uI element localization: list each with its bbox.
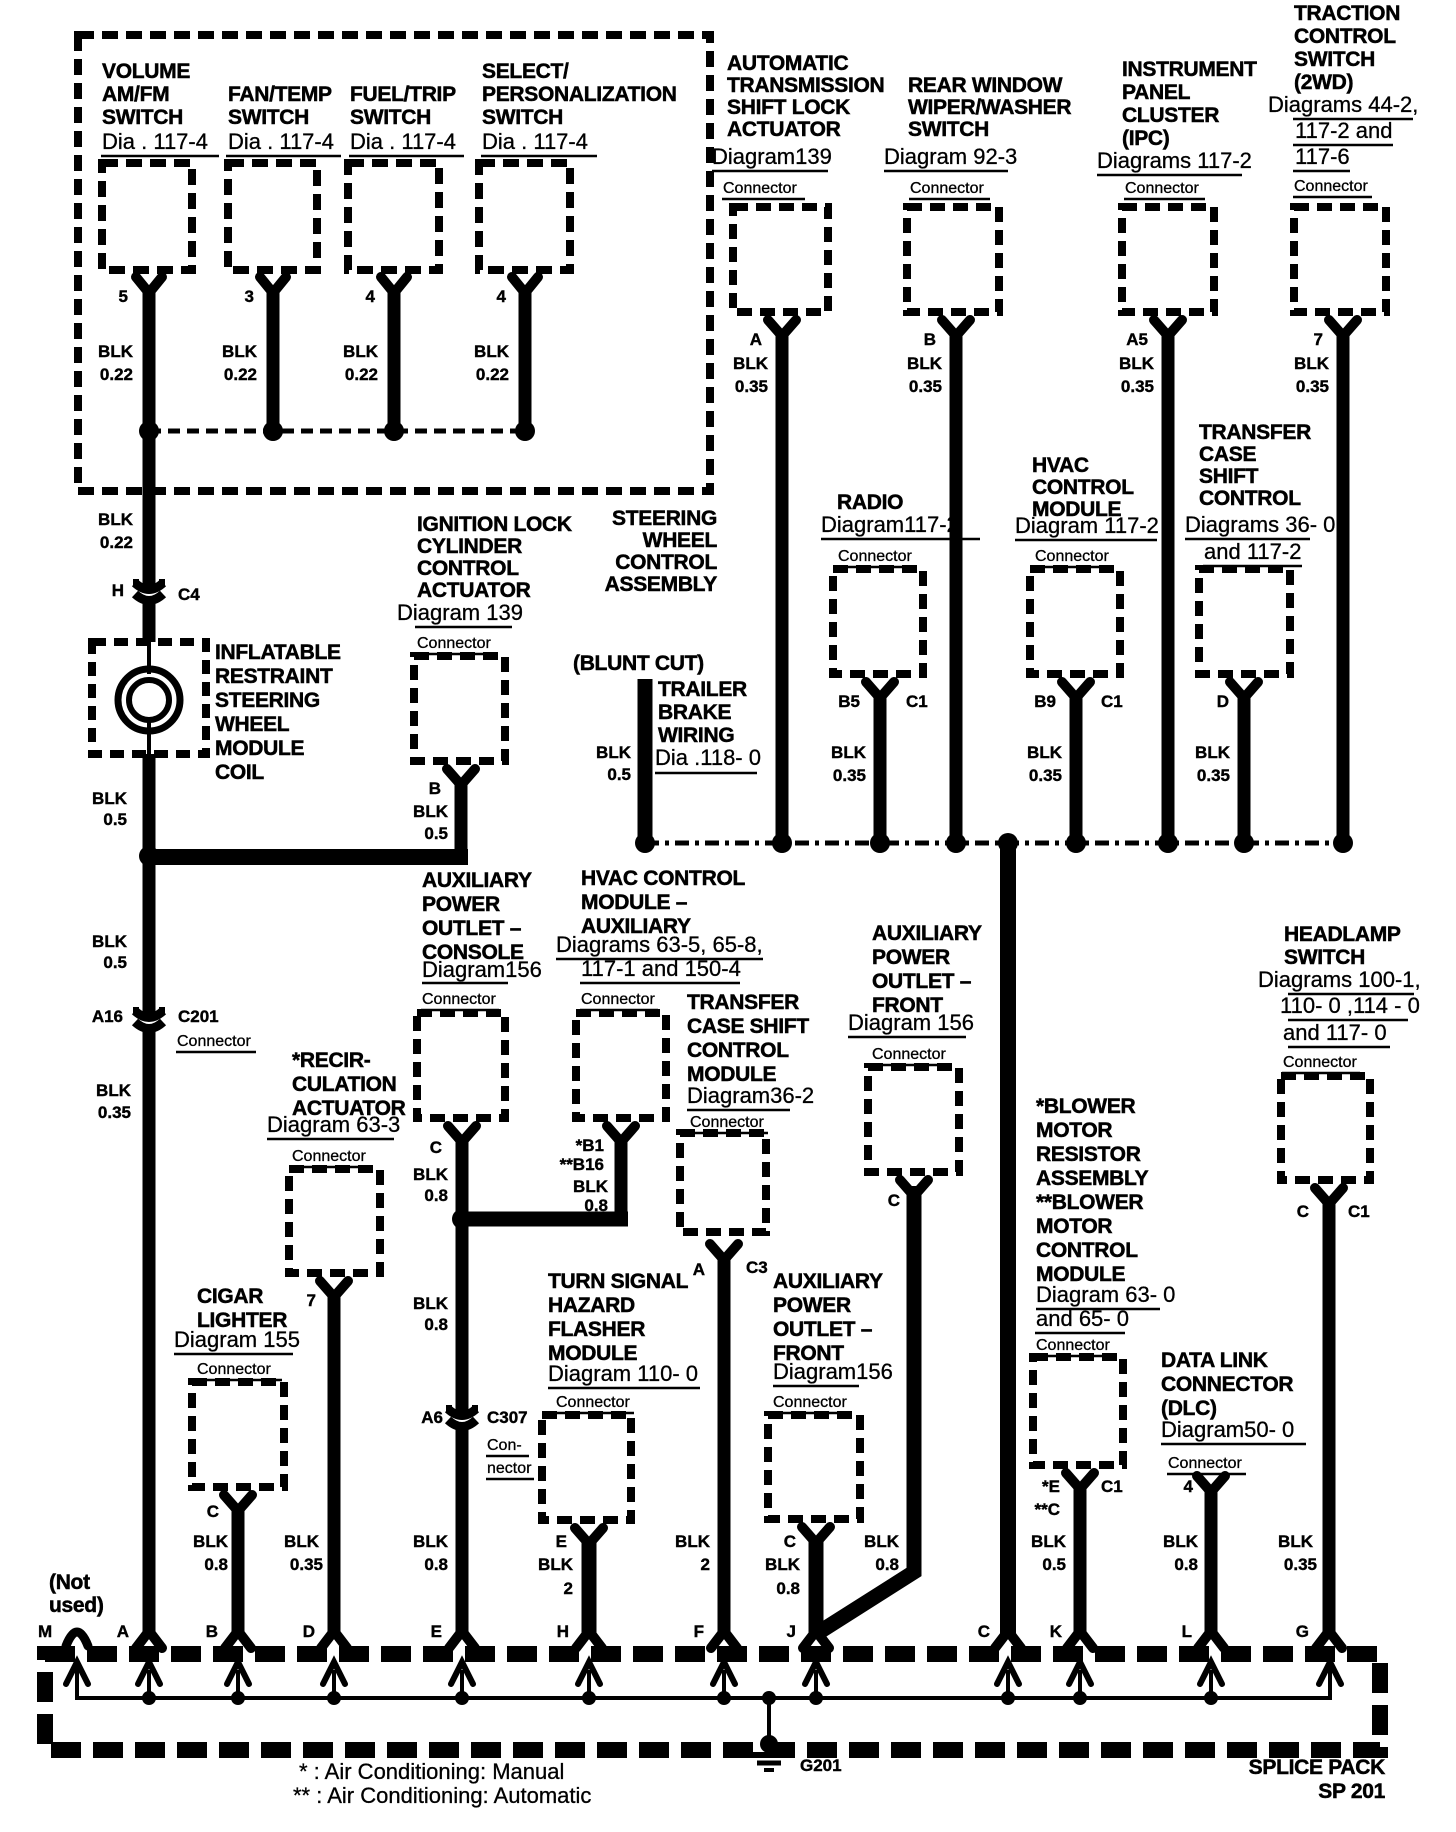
svg-text:A5: A5 [1126, 330, 1148, 349]
svg-text:Connector: Connector [773, 1394, 847, 1411]
svg-text:BLK: BLK [96, 1081, 132, 1100]
svg-text:CONTROL: CONTROL [1199, 487, 1301, 510]
svg-text:Diagram156: Diagram156 [773, 1359, 893, 1384]
svg-text:C: C [888, 1191, 900, 1210]
svg-text:CULATION: CULATION [292, 1073, 397, 1096]
svg-text:D: D [1217, 692, 1229, 711]
svg-text:BLK: BLK [1294, 354, 1330, 373]
svg-text:WHEEL: WHEEL [215, 713, 290, 736]
svg-text:** : Air Conditioning: Automat: ** : Air Conditioning: Automatic [293, 1783, 591, 1808]
svg-text:FAN/TEMP: FAN/TEMP [228, 83, 332, 106]
svg-text:*RECIR-: *RECIR- [292, 1049, 371, 1072]
svg-text:C: C [430, 1138, 442, 1157]
svg-text:CASE SHIFT: CASE SHIFT [687, 1015, 809, 1038]
svg-text:nector: nector [487, 1460, 532, 1477]
svg-text:FUEL/TRIP: FUEL/TRIP [350, 83, 456, 106]
svg-text:SELECT/: SELECT/ [482, 60, 569, 83]
svg-text:CONTROL: CONTROL [1294, 25, 1396, 48]
svg-text:Connector: Connector [197, 1361, 271, 1378]
svg-text:0.22: 0.22 [224, 365, 257, 384]
svg-text:Diagram139: Diagram139 [712, 144, 832, 169]
svg-text:WIPER/WASHER: WIPER/WASHER [908, 96, 1071, 119]
svg-text:G201: G201 [800, 1756, 842, 1775]
svg-text:* : Air Conditioning: Manual: * : Air Conditioning: Manual [299, 1759, 564, 1784]
svg-text:Diagram50- 0: Diagram50- 0 [1161, 1417, 1294, 1442]
svg-text:STEERING: STEERING [612, 507, 717, 530]
svg-text:G: G [1296, 1622, 1309, 1641]
svg-text:CONTROL: CONTROL [687, 1039, 789, 1062]
svg-text:4: 4 [366, 287, 376, 306]
svg-text:Dia .118- 0: Dia .118- 0 [655, 745, 761, 770]
svg-text:RESISTOR: RESISTOR [1036, 1143, 1141, 1166]
svg-text:SPLICE PACK: SPLICE PACK [1249, 1756, 1385, 1779]
svg-text:BLK: BLK [596, 743, 632, 762]
svg-text:ACTUATOR: ACTUATOR [417, 579, 531, 602]
svg-text:INSTRUMENT: INSTRUMENT [1122, 58, 1257, 81]
svg-text:Diagram156: Diagram156 [422, 957, 542, 982]
svg-text:Connector: Connector [690, 1114, 764, 1131]
svg-text:CONTROL: CONTROL [615, 551, 717, 574]
svg-text:(Not: (Not [49, 1571, 90, 1594]
svg-text:L: L [1182, 1622, 1192, 1641]
svg-text:BLK: BLK [1278, 1532, 1314, 1551]
svg-text:0.8: 0.8 [424, 1315, 448, 1334]
svg-text:BLK: BLK [1195, 743, 1231, 762]
svg-text:H: H [557, 1622, 569, 1641]
svg-text:POWER: POWER [422, 893, 500, 916]
svg-text:A: A [750, 330, 762, 349]
svg-text:SWITCH: SWITCH [102, 106, 183, 129]
svg-text:B: B [206, 1622, 218, 1641]
svg-text:*BLOWER: *BLOWER [1036, 1095, 1136, 1118]
svg-text:C: C [784, 1532, 796, 1551]
svg-text:TRACTION: TRACTION [1294, 2, 1400, 25]
svg-text:BLK: BLK [474, 342, 510, 361]
svg-text:BLK: BLK [573, 1177, 609, 1196]
svg-text:Diagram 156: Diagram 156 [848, 1010, 974, 1035]
svg-text:TRANSFER: TRANSFER [1199, 421, 1311, 444]
svg-text:RESTRAINT: RESTRAINT [215, 665, 333, 688]
svg-text:Diagram 63- 0: Diagram 63- 0 [1036, 1282, 1175, 1307]
svg-text:C: C [207, 1502, 219, 1521]
svg-text:117-1 and 150-4: 117-1 and 150-4 [581, 956, 741, 981]
svg-text:E: E [431, 1622, 442, 1641]
svg-text:M: M [38, 1622, 52, 1641]
svg-text:4: 4 [497, 287, 507, 306]
svg-text:Connector: Connector [556, 1394, 630, 1411]
svg-text:C1: C1 [1348, 1202, 1370, 1221]
svg-text:ASSEMBLY: ASSEMBLY [1036, 1167, 1149, 1190]
svg-text:**C: **C [1034, 1500, 1060, 1519]
svg-text:0.35: 0.35 [290, 1555, 323, 1574]
svg-text:OUTLET –: OUTLET – [872, 970, 972, 993]
svg-text:C1: C1 [1101, 692, 1123, 711]
svg-text:B: B [429, 779, 441, 798]
svg-text:D: D [303, 1622, 315, 1641]
svg-text:Diagrams 44-2,: Diagrams 44-2, [1268, 92, 1418, 117]
svg-text:0.22: 0.22 [100, 533, 133, 552]
svg-text:0.35: 0.35 [1284, 1555, 1317, 1574]
svg-text:0.5: 0.5 [607, 765, 631, 784]
svg-text:Connector: Connector [1168, 1455, 1242, 1472]
svg-text:Diagram 117-2: Diagram 117-2 [1015, 513, 1159, 538]
svg-text:BLK: BLK [675, 1532, 711, 1551]
svg-text:Connector: Connector [910, 180, 984, 197]
svg-text:110- 0 ,114 - 0: 110- 0 ,114 - 0 [1280, 993, 1420, 1018]
svg-text:Connector: Connector [1036, 1337, 1110, 1354]
svg-text:OUTLET –: OUTLET – [773, 1318, 873, 1341]
svg-text:CONTROL: CONTROL [417, 557, 519, 580]
svg-text:Diagram 110- 0: Diagram 110- 0 [548, 1361, 698, 1386]
svg-text:Connector: Connector [422, 991, 496, 1008]
svg-text:0.35: 0.35 [1296, 377, 1329, 396]
svg-text:AM/FM: AM/FM [102, 83, 169, 106]
svg-text:C1: C1 [906, 692, 928, 711]
svg-text:AUXILIARY: AUXILIARY [872, 922, 982, 945]
svg-text:0.22: 0.22 [345, 365, 378, 384]
svg-text:*B1: *B1 [576, 1136, 604, 1155]
svg-text:2: 2 [701, 1555, 710, 1574]
svg-text:BLK: BLK [538, 1555, 574, 1574]
svg-text:Connector: Connector [723, 180, 797, 197]
svg-text:AUTOMATIC: AUTOMATIC [727, 52, 848, 75]
svg-text:AUXILIARY: AUXILIARY [422, 869, 532, 892]
svg-text:0.35: 0.35 [1197, 766, 1230, 785]
svg-text:Connector: Connector [872, 1046, 946, 1063]
svg-text:C1: C1 [1101, 1477, 1123, 1496]
svg-text:COIL: COIL [215, 761, 264, 784]
svg-text:**BLOWER: **BLOWER [1036, 1191, 1143, 1214]
svg-text:0.35: 0.35 [735, 377, 768, 396]
svg-text:0.8: 0.8 [204, 1555, 228, 1574]
svg-text:TURN SIGNAL: TURN SIGNAL [548, 1270, 689, 1293]
svg-text:Connector: Connector [417, 635, 491, 652]
svg-text:7: 7 [307, 1291, 316, 1310]
svg-text:IGNITION LOCK: IGNITION LOCK [417, 513, 572, 536]
svg-text:*E: *E [1042, 1477, 1060, 1496]
svg-text:C: C [1297, 1202, 1309, 1221]
svg-text:CLUSTER: CLUSTER [1122, 104, 1219, 127]
svg-text:Connector: Connector [292, 1148, 366, 1165]
svg-text:HVAC CONTROL: HVAC CONTROL [581, 867, 745, 890]
svg-text:and 65- 0: and 65- 0 [1036, 1306, 1129, 1331]
svg-text:SWITCH: SWITCH [908, 118, 989, 141]
svg-text:SHIFT: SHIFT [1199, 465, 1259, 488]
svg-text:F: F [694, 1622, 704, 1641]
svg-text:7: 7 [1314, 330, 1323, 349]
svg-text:SWITCH: SWITCH [482, 106, 563, 129]
svg-text:DATA LINK: DATA LINK [1161, 1349, 1268, 1372]
svg-text:CONTROL: CONTROL [1032, 476, 1134, 499]
svg-text:and 117-2: and 117-2 [1204, 539, 1301, 564]
svg-text:Diagram 92-3: Diagram 92-3 [884, 144, 1017, 169]
svg-text:5: 5 [119, 287, 128, 306]
svg-text:Diagrams 117-2: Diagrams 117-2 [1097, 148, 1252, 173]
svg-text:TRANSMISSION: TRANSMISSION [727, 74, 884, 97]
svg-text:used): used) [49, 1594, 104, 1617]
svg-text:0.8: 0.8 [584, 1196, 608, 1215]
svg-text:0.8: 0.8 [424, 1186, 448, 1205]
svg-text:ACTUATOR: ACTUATOR [727, 118, 841, 141]
svg-text:0.8: 0.8 [1174, 1555, 1198, 1574]
svg-text:0.35: 0.35 [909, 377, 942, 396]
svg-text:BLK: BLK [1027, 743, 1063, 762]
svg-text:Connector: Connector [177, 1033, 251, 1050]
svg-text:SWITCH: SWITCH [1284, 946, 1365, 969]
svg-text:A: A [117, 1622, 129, 1641]
svg-text:MODULE –: MODULE – [581, 891, 688, 914]
svg-text:C201: C201 [178, 1007, 219, 1026]
svg-text:0.35: 0.35 [1121, 377, 1154, 396]
svg-text:Diagram117-2: Diagram117-2 [821, 512, 959, 537]
svg-text:PERSONALIZATION: PERSONALIZATION [482, 83, 677, 106]
svg-text:BLK: BLK [864, 1532, 900, 1551]
svg-text:Dia . 117-4: Dia . 117-4 [102, 129, 208, 154]
svg-text:BLK: BLK [284, 1532, 320, 1551]
svg-text:INFLATABLE: INFLATABLE [215, 641, 341, 664]
svg-text:RADIO: RADIO [837, 491, 903, 514]
svg-text:TRAILER: TRAILER [658, 678, 747, 701]
svg-text:Connector: Connector [581, 991, 655, 1008]
svg-text:B9: B9 [1034, 692, 1056, 711]
svg-text:BLK: BLK [98, 510, 134, 529]
svg-text:CYLINDER: CYLINDER [417, 535, 522, 558]
svg-text:POWER: POWER [773, 1294, 851, 1317]
svg-text:0.5: 0.5 [103, 953, 127, 972]
svg-text:0.5: 0.5 [424, 824, 448, 843]
svg-text:Connector: Connector [1035, 548, 1109, 565]
svg-text:PANEL: PANEL [1122, 81, 1191, 104]
svg-text:Diagram 139: Diagram 139 [397, 600, 523, 625]
svg-text:MOTOR: MOTOR [1036, 1215, 1112, 1238]
svg-text:Diagrams 36- 0: Diagrams 36- 0 [1185, 512, 1335, 537]
svg-text:Dia . 117-4: Dia . 117-4 [482, 129, 588, 154]
svg-text:FLASHER: FLASHER [548, 1318, 645, 1341]
svg-text:BLK: BLK [1163, 1532, 1199, 1551]
svg-text:MOTOR: MOTOR [1036, 1119, 1112, 1142]
svg-text:WHEEL: WHEEL [643, 529, 718, 552]
svg-text:BLK: BLK [907, 354, 943, 373]
svg-text:HEADLAMP: HEADLAMP [1284, 923, 1401, 946]
svg-text:0.8: 0.8 [776, 1579, 800, 1598]
svg-text:0.35: 0.35 [1029, 766, 1062, 785]
svg-text:(2WD): (2WD) [1294, 71, 1353, 94]
svg-text:BRAKE: BRAKE [658, 701, 731, 724]
svg-text:0.22: 0.22 [100, 365, 133, 384]
svg-text:(BLUNT CUT): (BLUNT CUT) [573, 652, 704, 675]
svg-text:BLK: BLK [413, 1532, 449, 1551]
svg-text:A16: A16 [92, 1007, 123, 1026]
svg-text:0.35: 0.35 [98, 1103, 131, 1122]
svg-text:CIGAR: CIGAR [197, 1285, 263, 1308]
svg-text:C4: C4 [178, 585, 200, 604]
svg-text:0.22: 0.22 [476, 365, 509, 384]
svg-text:STEERING: STEERING [215, 689, 320, 712]
svg-text:0.5: 0.5 [103, 810, 127, 829]
svg-text:WIRING: WIRING [658, 724, 734, 747]
svg-text:BLK: BLK [413, 1294, 449, 1313]
svg-text:BLK: BLK [413, 1165, 449, 1184]
svg-text:117-6: 117-6 [1295, 144, 1350, 169]
svg-text:4: 4 [1184, 1477, 1194, 1496]
svg-text:Connector: Connector [1283, 1054, 1357, 1071]
svg-text:BLK: BLK [1031, 1532, 1067, 1551]
svg-text:and 117- 0: and 117- 0 [1283, 1020, 1387, 1045]
svg-text:BLK: BLK [193, 1532, 229, 1551]
svg-text:BLK: BLK [92, 932, 128, 951]
svg-text:Diagrams 63-5, 65-8,: Diagrams 63-5, 65-8, [556, 932, 763, 957]
svg-text:Diagram 155: Diagram 155 [174, 1327, 300, 1352]
svg-text:Con-: Con- [487, 1437, 522, 1454]
svg-text:HVAC: HVAC [1032, 454, 1089, 477]
svg-text:Dia . 117-4: Dia . 117-4 [228, 129, 334, 154]
svg-text:J: J [787, 1622, 796, 1641]
svg-text:H: H [112, 581, 124, 600]
svg-text:SP 201: SP 201 [1318, 1780, 1385, 1803]
svg-text:3: 3 [245, 287, 254, 306]
svg-text:0.8: 0.8 [424, 1555, 448, 1574]
svg-text:Connector: Connector [1294, 178, 1368, 195]
svg-text:BLK: BLK [831, 743, 867, 762]
svg-text:2: 2 [564, 1579, 573, 1598]
svg-text:MODULE: MODULE [215, 737, 304, 760]
svg-text:B: B [924, 330, 936, 349]
svg-text:TRANSFER: TRANSFER [687, 991, 799, 1014]
svg-text:A6: A6 [421, 1408, 443, 1427]
svg-text:SWITCH: SWITCH [1294, 48, 1375, 71]
svg-text:CASE: CASE [1199, 443, 1256, 466]
svg-text:0.8: 0.8 [875, 1555, 899, 1574]
svg-text:Connector: Connector [1125, 180, 1199, 197]
svg-text:**B16: **B16 [560, 1155, 604, 1174]
svg-text:REAR WINDOW: REAR WINDOW [908, 74, 1063, 97]
svg-text:OUTLET –: OUTLET – [422, 917, 522, 940]
svg-text:VOLUME: VOLUME [102, 60, 190, 83]
svg-text:SHIFT LOCK: SHIFT LOCK [727, 96, 850, 119]
svg-text:ASSEMBLY: ASSEMBLY [605, 573, 718, 596]
svg-text:C3: C3 [746, 1258, 768, 1277]
svg-text:BLK: BLK [222, 342, 258, 361]
svg-text:Diagrams 100-1,: Diagrams 100-1, [1258, 967, 1421, 992]
svg-text:BLK: BLK [1119, 354, 1155, 373]
svg-text:E: E [556, 1532, 567, 1551]
svg-text:CONTROL: CONTROL [1036, 1239, 1138, 1262]
svg-text:Connector: Connector [838, 548, 912, 565]
svg-text:0.5: 0.5 [1042, 1555, 1066, 1574]
svg-text:SWITCH: SWITCH [228, 106, 309, 129]
svg-text:K: K [1050, 1622, 1063, 1641]
svg-text:117-2 and: 117-2 and [1295, 118, 1392, 143]
svg-text:(IPC): (IPC) [1122, 127, 1170, 150]
svg-text:Dia . 117-4: Dia . 117-4 [350, 129, 456, 154]
svg-text:HAZARD: HAZARD [548, 1294, 635, 1317]
svg-text:C307: C307 [487, 1408, 528, 1427]
svg-text:B5: B5 [838, 692, 860, 711]
svg-text:C: C [978, 1622, 990, 1641]
svg-text:Diagram36-2: Diagram36-2 [687, 1083, 814, 1108]
svg-text:BLK: BLK [343, 342, 379, 361]
svg-text:SWITCH: SWITCH [350, 106, 431, 129]
svg-text:CONNECTOR: CONNECTOR [1161, 1373, 1293, 1396]
svg-text:AUXILIARY: AUXILIARY [773, 1270, 883, 1293]
svg-text:BLK: BLK [92, 789, 128, 808]
svg-text:BLK: BLK [733, 354, 769, 373]
svg-text:BLK: BLK [765, 1555, 801, 1574]
svg-text:POWER: POWER [872, 946, 950, 969]
svg-text:0.35: 0.35 [833, 766, 866, 785]
svg-text:A: A [693, 1260, 705, 1279]
svg-text:BLK: BLK [413, 802, 449, 821]
svg-text:Diagram 63-3: Diagram 63-3 [267, 1112, 400, 1137]
svg-text:BLK: BLK [98, 342, 134, 361]
